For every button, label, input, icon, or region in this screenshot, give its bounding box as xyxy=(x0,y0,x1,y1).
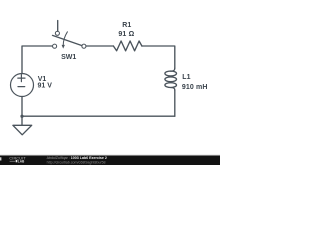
wire top-left: V1 top to switch left terminal xyxy=(22,46,52,74)
switch SW1 actuation arrow xyxy=(63,32,67,46)
switch SW1 blade xyxy=(53,35,83,45)
voltage source V1 circle xyxy=(11,74,34,97)
wire: resistor R1 right lead to top-right corner and down to inductor xyxy=(142,46,175,68)
svg-text:http://circuitlab.com/c68t9agh: http://circuitlab.com/c68t9aght8bur58 xyxy=(47,160,106,164)
svg-text:91 Ω: 91 Ω xyxy=(118,31,134,38)
inductor L1 coil xyxy=(171,68,175,71)
switch SW1 top throw stub xyxy=(57,21,59,32)
wire: switch right terminal to resistor R1 left lead xyxy=(86,45,113,47)
wire: V1 bottom to ground junction xyxy=(21,97,23,117)
footer left edge mark xyxy=(0,157,1,160)
ground junction node xyxy=(20,115,23,118)
svg-text:SW1: SW1 xyxy=(61,54,76,61)
switch SW1 top throw circle xyxy=(55,31,59,35)
svg-text:R1: R1 xyxy=(122,22,131,29)
footer bar xyxy=(0,156,220,165)
svg-text:910 mH: 910 mH xyxy=(182,84,208,91)
V1 minus sign xyxy=(18,86,25,88)
switch SW1 right terminal circle xyxy=(82,44,86,48)
svg-text:LAB: LAB xyxy=(18,159,25,163)
ground symbol xyxy=(13,116,32,135)
V1 plus sign xyxy=(18,75,25,82)
wire: inductor bottom lead down to bottom rail xyxy=(174,90,176,116)
resistor R1 zigzag xyxy=(113,41,141,51)
wire bottom rail xyxy=(22,115,175,117)
svg-text:L1: L1 xyxy=(182,74,190,81)
svg-text:91 V: 91 V xyxy=(38,82,53,89)
switch SW1 left terminal circle xyxy=(53,44,57,48)
